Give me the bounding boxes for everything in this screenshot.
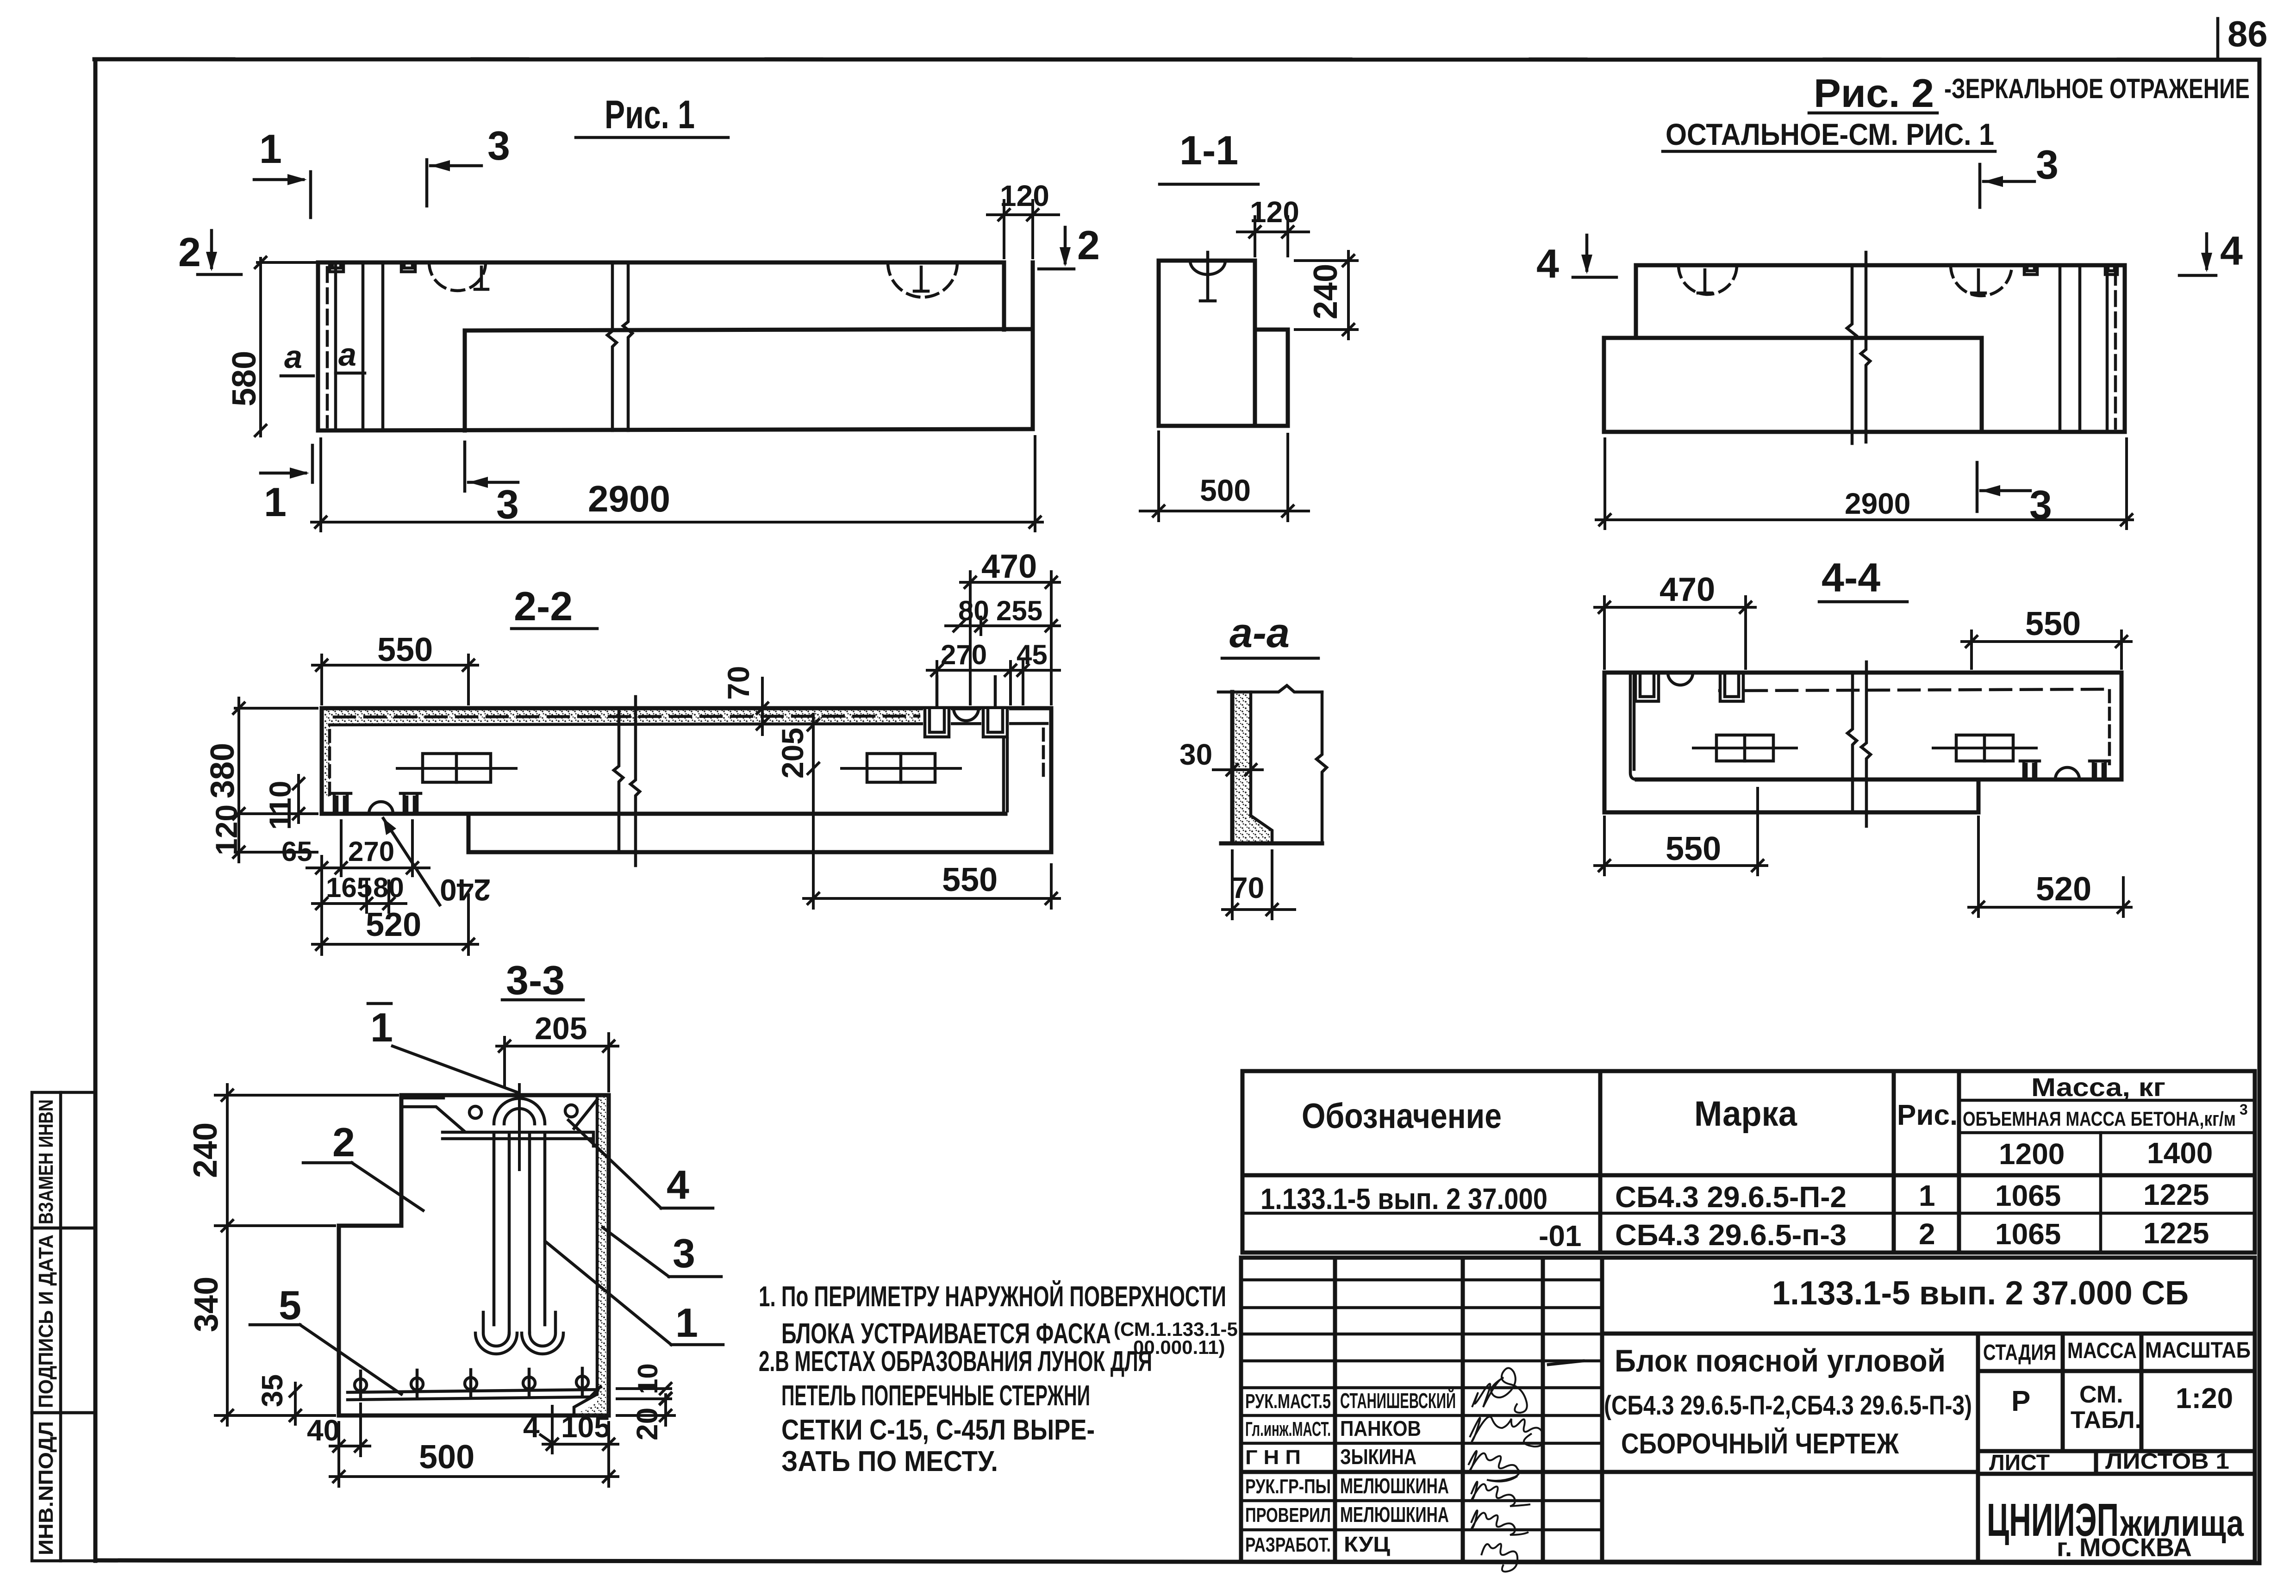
fig2 break line 1 — [1847, 265, 1856, 443]
svg-text:ПРОВЕРИЛ: ПРОВЕРИЛ — [1245, 1504, 1331, 1527]
fig1 hole tick 2 — [914, 267, 928, 291]
frame top — [94, 59, 2259, 60]
stamp col name — [1461, 1258, 1465, 1562]
svg-text:1400: 1400 — [2147, 1136, 2213, 1170]
stadia table left edge — [1976, 1334, 1980, 1562]
sec22 facing stipple — [324, 710, 920, 723]
seca left wall — [1230, 692, 1235, 843]
svg-text:ПОДПИСЬ И ДАТА: ПОДПИСЬ И ДАТА — [35, 1234, 57, 1408]
svg-text:a: a — [284, 339, 302, 375]
sec33 hairpin hook left — [475, 1312, 517, 1354]
fig2 bottom edge — [1604, 430, 2125, 434]
svg-text:580: 580 — [226, 351, 263, 406]
svg-text:ВЗАМЕН ИНВN: ВЗАМЕН ИНВN — [35, 1099, 57, 1224]
fig2 hole tick 1 — [1698, 270, 1712, 293]
fig2 break line 2 — [1861, 252, 1870, 442]
sec33 facing inner line — [574, 1095, 597, 1415]
svg-text:-01: -01 — [1539, 1219, 1582, 1253]
sec33 centerline — [518, 1083, 521, 1171]
svg-text:ЗАТЬ ПО МЕСТУ.: ЗАТЬ ПО МЕСТУ. — [781, 1446, 998, 1478]
fig1 step vertical — [463, 330, 467, 430]
sec22 shallow bottom right part — [468, 812, 1005, 816]
svg-text:3: 3 — [2029, 482, 2052, 528]
svg-text:Гл.инж.МАСТ.: Гл.инж.МАСТ. — [1245, 1418, 1331, 1440]
svg-text:РУК.ГР-ПЫ: РУК.ГР-ПЫ — [1245, 1475, 1331, 1498]
svg-text:ТАБЛ.: ТАБЛ. — [2071, 1407, 2141, 1434]
svg-text:ЛИСТ: ЛИСТ — [1989, 1451, 2050, 1475]
table col1 divider — [1598, 1071, 1603, 1253]
svg-text:Р: Р — [2011, 1385, 2030, 1417]
sec44 plate 1 — [1716, 735, 1773, 761]
signature 2 — [1470, 1417, 1544, 1447]
sec44 plate 2 — [1956, 735, 2013, 761]
fig1 break line 1 — [607, 262, 617, 430]
table outline — [1242, 1071, 2255, 1253]
svg-text:МЕЛЮШКИНА: МЕЛЮШКИНА — [1340, 1502, 1449, 1527]
page number 86 — [2216, 19, 2220, 57]
sec33 hairpin top arc — [494, 1098, 545, 1124]
fig2 right strip solid — [2106, 265, 2109, 432]
sec44 loop top 1 — [1635, 673, 1659, 701]
fig2 upper-left vertical — [1634, 265, 1638, 338]
svg-text:500: 500 — [1200, 473, 1251, 507]
sec22 loop bottom 2 — [400, 793, 421, 814]
fig2 right strip line d — [2059, 265, 2062, 432]
signature 4 — [1471, 1482, 1530, 1506]
svg-text:Масса, кг: Масса, кг — [2031, 1072, 2165, 1102]
svg-text:520: 520 — [2036, 871, 2091, 908]
sec44 break 2 — [1861, 662, 1871, 826]
sec22 loop top 2 — [981, 709, 1009, 739]
svg-text:1.133.1-5 вып. 2 37.000: 1.133.1-5 вып. 2 37.000 — [1260, 1182, 1547, 1216]
sec44 outline — [1604, 673, 2121, 812]
svg-text:Блок поясной угловой: Блок поясной угловой — [1615, 1343, 1946, 1378]
svg-text:3-3: 3-3 — [506, 957, 565, 1003]
svg-text:РАЗРАБОТ.: РАЗРАБОТ. — [1245, 1534, 1331, 1556]
svg-text:МЕЛЮШКИНА: МЕЛЮШКИНА — [1340, 1474, 1449, 1498]
svg-text:1065: 1065 — [1995, 1179, 2061, 1212]
svg-text:120: 120 — [1250, 195, 1299, 229]
svg-text:ЗЫКИНА: ЗЫКИНА — [1340, 1445, 1416, 1469]
svg-text:Г Н П: Г Н П — [1245, 1446, 1301, 1469]
frame right — [2258, 60, 2262, 1563]
fig2 step vertical — [1980, 338, 1984, 432]
svg-text:1: 1 — [675, 1300, 698, 1346]
sec44 shallow bottom left part — [1637, 778, 1978, 782]
sidebar box ПОДПИСЬ И ДАТА — [32, 1228, 96, 1413]
fig1 dim 2900 line — [310, 521, 1044, 524]
svg-text:205: 205 — [775, 728, 810, 779]
fig1 loop mark 1 — [330, 262, 343, 272]
signature 1 — [1472, 1368, 1527, 1413]
table row1 bottom — [1242, 1212, 2255, 1215]
svg-text:МАССА: МАССА — [2067, 1339, 2137, 1363]
svg-text:a-a: a-a — [1229, 610, 1290, 656]
fig2 dim 2900 — [1595, 518, 2134, 521]
fig2 ledge line — [1604, 336, 1982, 340]
svg-text:г. МОСКВА: г. МОСКВА — [2057, 1533, 2192, 1562]
svg-text:1: 1 — [370, 1004, 393, 1050]
sec44 loop top 2 — [1720, 673, 1743, 701]
svg-text:РУК.МАСТ.5: РУК.МАСТ.5 — [1245, 1390, 1331, 1413]
sec33 right edge — [607, 1095, 611, 1415]
svg-text:2: 2 — [1077, 222, 1100, 268]
svg-text:550: 550 — [2025, 605, 2081, 642]
fig2 loop mark 2 — [2105, 265, 2117, 274]
sec22 break 1 — [614, 708, 623, 852]
list row bottom — [1978, 1472, 2255, 1476]
svg-text:205: 205 — [535, 1011, 587, 1046]
sec44 dashed facing top — [1746, 689, 2109, 691]
svg-text:СБОРОЧНЫЙ ЧЕРТЕЖ: СБОРОЧНЫЙ ЧЕРТЕЖ — [1621, 1428, 1899, 1460]
fig1 break line 2 — [623, 262, 632, 430]
fig2 top edge — [1636, 263, 2125, 268]
stamp col sign — [1541, 1258, 1545, 1562]
sec22 inner dashed left — [328, 730, 331, 798]
sec33 step horizontal — [339, 1224, 401, 1228]
fig1 right notch vertical — [1002, 262, 1006, 330]
sec22 loop top 1 — [923, 709, 951, 739]
fig1 loop mark 2 — [401, 262, 415, 272]
svg-text:1. По ПЕРИМЕТРУ НАРУЖНОЙ ПОВЕР: 1. По ПЕРИМЕТРУ НАРУЖНОЙ ПОВЕРХНОСТИ — [759, 1280, 1226, 1313]
fig2 hole notch arc 2 — [1951, 265, 2012, 296]
svg-text:(СБ4.3 29.6.5-П-2,СБ4.3 29.6.5: (СБ4.3 29.6.5-П-2,СБ4.3 29.6.5-П-3) — [1604, 1390, 1972, 1421]
svg-text:120: 120 — [1000, 179, 1049, 212]
svg-text:Рис. 1: Рис. 1 — [605, 93, 695, 137]
sec22 plate 1 — [423, 754, 491, 782]
sec33 anchor circle left — [469, 1106, 481, 1118]
sidebar box ВЗАМЕН ИНВ № — [32, 1092, 96, 1228]
svg-text:1: 1 — [1919, 1179, 1935, 1212]
sec22 right inner dashed — [1042, 729, 1045, 778]
svg-text:40: 40 — [307, 1414, 340, 1447]
svg-text:2-2: 2-2 — [514, 583, 573, 629]
frame left — [94, 59, 98, 1561]
signature 6 — [1481, 1544, 1517, 1571]
svg-text:ОБЪЕМНАЯ МАССА БЕТОНА,кг/м: ОБЪЕМНАЯ МАССА БЕТОНА,кг/м — [1963, 1108, 2236, 1130]
svg-text:1225: 1225 — [2143, 1216, 2209, 1250]
svg-text:70: 70 — [1231, 871, 1264, 904]
svg-text:СТАНИШЕВСКИЙ: СТАНИШЕВСКИЙ — [1340, 1389, 1456, 1413]
sec33 facing stipple right — [574, 1095, 609, 1415]
fig1 left strip dashed — [326, 268, 329, 427]
svg-text:ПЕТЕЛЬ ПОПЕРЕЧНЫЕ СТЕРЖНИ: ПЕТЕЛЬ ПОПЕРЕЧНЫЕ СТЕРЖНИ — [781, 1380, 1090, 1412]
table header bottom — [1242, 1173, 2255, 1178]
svg-text:70: 70 — [721, 666, 755, 700]
sec33 step vertical — [399, 1095, 404, 1226]
svg-text:2: 2 — [178, 229, 201, 275]
stamp col date — [1600, 1258, 1604, 1562]
svg-text:1:20: 1:20 — [2176, 1383, 2233, 1415]
fig2 lower-left vertical — [1602, 338, 1606, 432]
fig1 right edge — [1031, 262, 1035, 429]
fig1 dim 580 line — [259, 257, 262, 437]
svg-text:4: 4 — [523, 1410, 540, 1444]
sec44 dashed facing right — [2108, 691, 2111, 764]
svg-text:270: 270 — [941, 639, 987, 670]
svg-text:2900: 2900 — [588, 478, 670, 519]
svg-text:ОСТАЛЬНОЕ-СМ. РИС. 1: ОСТАЛЬНОЕ-СМ. РИС. 1 — [1666, 117, 1994, 151]
svg-text:470: 470 — [1660, 571, 1715, 608]
svg-text:550: 550 — [1666, 830, 1721, 867]
signature 3 — [1468, 1451, 1519, 1482]
svg-text:45: 45 — [1017, 639, 1048, 670]
sec33 anchor bar — [443, 1132, 593, 1146]
svg-text:СМ.: СМ. — [2079, 1381, 2123, 1408]
sec44 notch top — [1668, 673, 1693, 685]
svg-text:КУЦ: КУЦ — [1344, 1532, 1390, 1556]
svg-text:3: 3 — [496, 481, 519, 527]
signature dash — [1548, 1361, 1583, 1365]
svg-text:Обозначение: Обозначение — [1302, 1097, 1502, 1136]
svg-text:СБ4.3 29.6.5-п-3: СБ4.3 29.6.5-п-3 — [1615, 1218, 1847, 1252]
seca top line — [1218, 686, 1322, 692]
table massa kg line — [1959, 1099, 2255, 1102]
stadia col 1 — [2061, 1334, 2065, 1451]
list divider — [2094, 1451, 2098, 1474]
svg-text:3: 3 — [487, 123, 510, 168]
svg-text:МАСШТАБ: МАСШТАБ — [2145, 1338, 2251, 1363]
fig1 left strip line b — [334, 262, 337, 430]
sec44 loop bottom 1 — [2020, 761, 2040, 779]
fig2 hole notch arc 1 — [1678, 265, 1737, 294]
sec22 inner corner wall vertical — [1004, 739, 1007, 814]
sec33 mesh lines — [348, 1387, 600, 1400]
sec33 left lower edge — [337, 1226, 341, 1415]
svg-text:550: 550 — [377, 631, 433, 668]
sec33 mesh circles — [355, 1368, 588, 1399]
sec11 step inner vertical — [1253, 330, 1257, 426]
svg-text:20: 20 — [630, 1408, 664, 1440]
sec33 top edge — [401, 1093, 609, 1097]
sec22 facing inner line — [330, 723, 1047, 725]
list row top — [1978, 1449, 2255, 1453]
svg-text:СЕТКИ С-15, С-45Л ВЫРЕ-: СЕТКИ С-15, С-45Л ВЫРЕ- — [781, 1414, 1095, 1446]
svg-text:240: 240 — [187, 1122, 224, 1178]
stamp blank row lines — [1241, 1278, 1602, 1282]
svg-text:ПАНКОВ: ПАНКОВ — [1340, 1416, 1421, 1440]
sec44 inner corner wall vertical — [1630, 674, 1637, 779]
svg-text:1: 1 — [264, 479, 287, 525]
svg-text:1225: 1225 — [2143, 1178, 2209, 1211]
fig1 hole tick 1 — [475, 267, 488, 289]
svg-text:1.133.1-5 вып. 2 37.000 СБ: 1.133.1-5 вып. 2 37.000 СБ — [1772, 1275, 2189, 1312]
seca bottom line — [1221, 842, 1322, 846]
svg-text:Рис. 2: Рис. 2 — [1814, 71, 1934, 116]
stadia header bottom — [1978, 1369, 2255, 1373]
seca right edge with break — [1316, 692, 1327, 843]
svg-text:2.В МЕСТАХ ОБРАЗОВАНИЯ ЛУНОК Д: 2.В МЕСТАХ ОБРАЗОВАНИЯ ЛУНОК ДЛЯ — [759, 1346, 1152, 1378]
svg-text:ЛИСТОВ 1: ЛИСТОВ 1 — [2105, 1449, 2229, 1474]
frame bottom — [95, 1560, 2259, 1563]
fig2 right strip dashed — [2114, 270, 2117, 428]
svg-text:2900: 2900 — [1845, 487, 1910, 520]
fig2 hole tick 2 — [1972, 270, 1985, 293]
sec44 break 1 — [1847, 673, 1857, 812]
sec22 break 2 — [630, 697, 640, 866]
sec33 hairpin hook right — [522, 1312, 563, 1354]
fig1 left edge — [316, 262, 320, 430]
sec22 notch top — [954, 708, 979, 721]
svg-text:Марка: Марка — [1694, 1094, 1797, 1134]
svg-text:-ЗЕРКАЛЬНОЕ ОТРАЖЕНИЕ: -ЗЕРКАЛЬНОЕ ОТРАЖЕНИЕ — [1944, 73, 2250, 104]
fig2 loop mark 1 — [2024, 265, 2037, 274]
svg-text:3: 3 — [673, 1230, 695, 1276]
svg-text:255: 255 — [996, 595, 1042, 626]
sec22 notch bottom — [369, 802, 393, 814]
fig1 left strip line d — [381, 262, 385, 430]
svg-text:СБ4.3 29.6.5-П-2: СБ4.3 29.6.5-П-2 — [1615, 1180, 1847, 1214]
svg-text:2: 2 — [332, 1119, 355, 1165]
sec44 inner solid right short — [1718, 689, 1722, 692]
svg-text:3: 3 — [2036, 142, 2059, 187]
svg-text:110: 110 — [263, 781, 297, 830]
table col2 divider — [1892, 1071, 1896, 1253]
stamp outline — [1241, 1258, 2255, 1562]
sec22 loop bottom 1 — [331, 793, 351, 814]
svg-text:240: 240 — [440, 873, 491, 907]
sec22 plate 2 — [867, 754, 935, 782]
svg-text:35: 35 — [256, 1374, 289, 1407]
sec33 bottom edge — [339, 1414, 609, 1418]
svg-text:550: 550 — [942, 861, 998, 898]
sec44 notch bottom — [2055, 767, 2079, 779]
fig2 right edge — [2123, 265, 2127, 432]
svg-text:4-4: 4-4 — [1822, 555, 1880, 600]
table col3 divider — [1957, 1071, 1961, 1253]
stamp big cell divider — [1602, 1332, 2255, 1336]
stamp col role — [1333, 1258, 1337, 1562]
stamp title cell bottom — [1602, 1470, 1978, 1474]
svg-text:3: 3 — [2240, 1101, 2248, 1118]
fig1 hole notch arc 1 — [429, 262, 486, 291]
svg-text:30: 30 — [1179, 738, 1212, 771]
svg-text:270: 270 — [348, 836, 394, 867]
table ob massa line — [1959, 1131, 2255, 1135]
sec33 hairpin legs — [493, 1135, 496, 1325]
sec33 anchor circle right — [565, 1105, 577, 1117]
stadia col 2 — [2140, 1334, 2144, 1451]
sidebar box ИНВ № ПОДЛ — [32, 1413, 96, 1561]
svg-text:105: 105 — [561, 1410, 611, 1444]
svg-text:5: 5 — [279, 1282, 301, 1328]
svg-text:4: 4 — [667, 1162, 689, 1208]
svg-text:Рис.: Рис. — [1897, 1099, 1958, 1131]
svg-text:340: 340 — [188, 1277, 225, 1332]
svg-text:4: 4 — [1536, 241, 1559, 287]
svg-text:470: 470 — [981, 548, 1037, 585]
fig1 top edge — [318, 261, 1004, 265]
sec22 outline — [322, 708, 1051, 852]
svg-text:СТАДИЯ: СТАДИЯ — [1983, 1340, 2056, 1365]
svg-text:380: 380 — [204, 743, 241, 798]
sec44 loop bottom 2 — [2090, 761, 2109, 779]
svg-text:1065: 1065 — [1995, 1217, 2061, 1251]
svg-text:86: 86 — [2227, 13, 2268, 54]
signature 5 — [1471, 1510, 1529, 1535]
fig2 right strip line c — [2078, 265, 2082, 432]
svg-text:520: 520 — [366, 906, 421, 943]
svg-text:1-1: 1-1 — [1179, 127, 1238, 173]
stamp labeled row lines — [1241, 1386, 1602, 1390]
svg-text:ИНВ.NПОДЛ: ИНВ.NПОДЛ — [35, 1421, 57, 1555]
svg-text:4: 4 — [2220, 228, 2243, 274]
sec11 body — [1159, 261, 1288, 426]
svg-text:240: 240 — [1307, 264, 1344, 319]
fig1 ledge line — [465, 329, 1033, 330]
sec22 inner dashed horizontal — [334, 716, 919, 717]
fig1 bottom edge — [318, 429, 1033, 430]
svg-text:БЛОКА УСТРАИВАЕТСЯ ФАСКА: БЛОКА УСТРАИВАЕТСЯ ФАСКА — [781, 1318, 1111, 1350]
svg-text:a: a — [338, 337, 356, 373]
seca inner line — [1251, 692, 1272, 842]
sec33 trough profile — [404, 1098, 596, 1131]
fig1 hole notch arc 2 — [888, 262, 957, 297]
svg-text:65: 65 — [281, 836, 312, 867]
fig1 dim 120 — [986, 213, 1060, 216]
seca stipple strip — [1234, 692, 1272, 842]
fig1 left strip line c — [362, 262, 365, 430]
svg-text:500: 500 — [419, 1439, 474, 1476]
svg-text:1200: 1200 — [1999, 1137, 2065, 1171]
sec11 notch tick — [1190, 261, 1225, 274]
svg-text:1: 1 — [259, 126, 282, 172]
svg-text:2: 2 — [1919, 1217, 1935, 1251]
table mass split — [2099, 1133, 2103, 1253]
